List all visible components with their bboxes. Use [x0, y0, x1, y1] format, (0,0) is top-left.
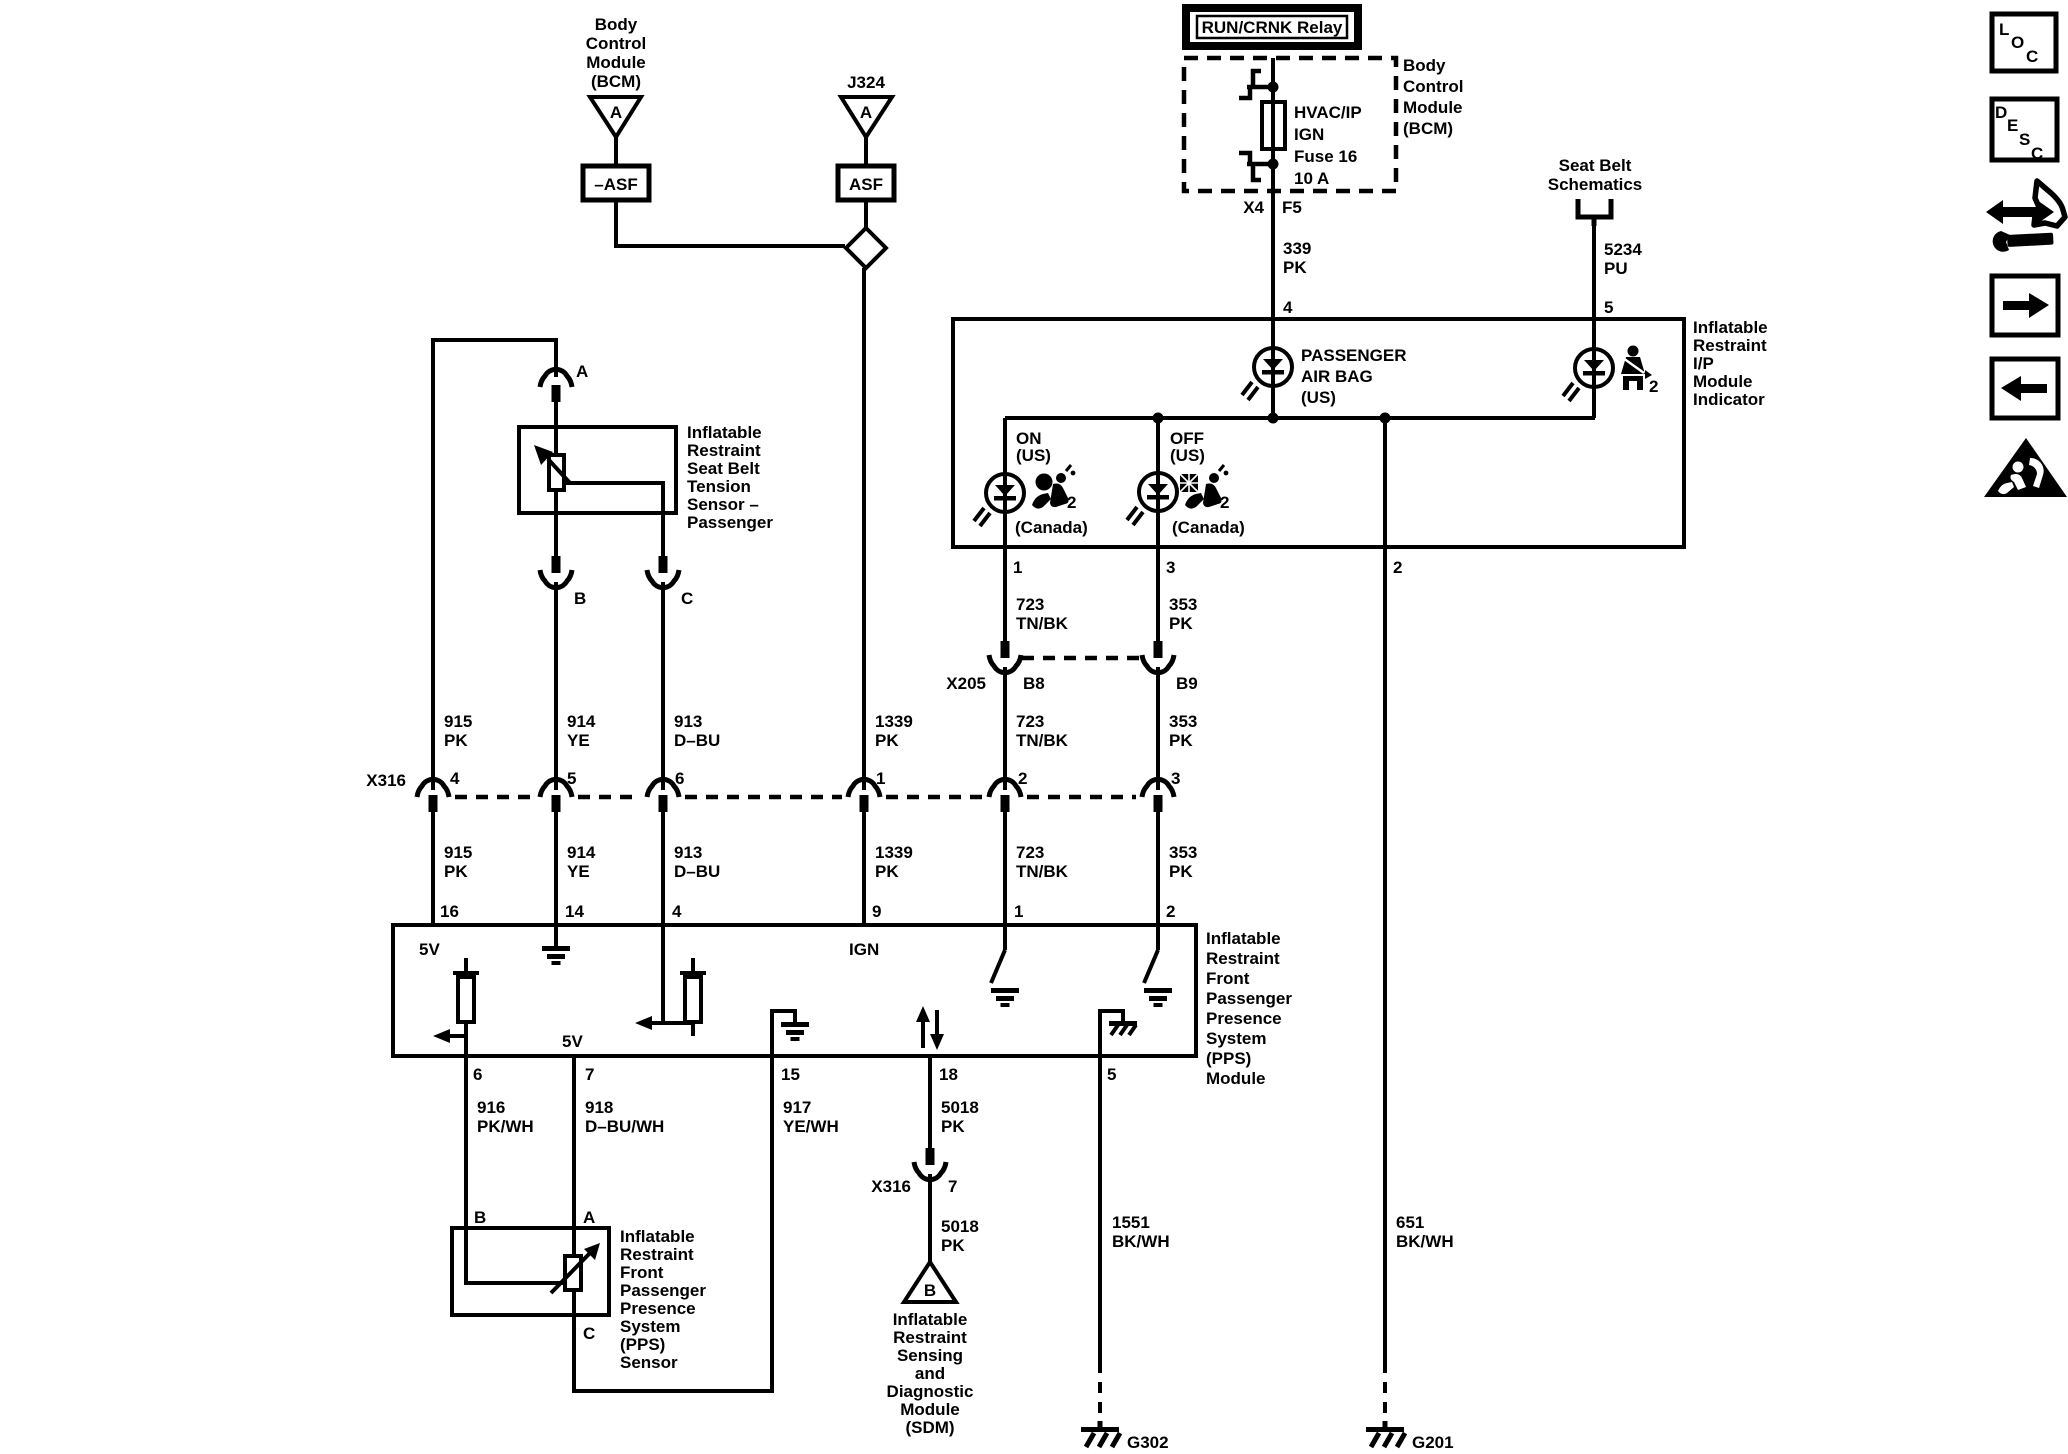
wire 1339 PK lower — [862, 812, 866, 925]
svg-text:Sensing: Sensing — [897, 1346, 963, 1365]
svg-text:(US): (US) — [1016, 446, 1051, 465]
svg-text:TN/BK: TN/BK — [1016, 731, 1069, 750]
svg-text:Restraint: Restraint — [620, 1245, 694, 1264]
wire 723 TN/BK — [1003, 547, 1007, 641]
svg-text:2: 2 — [1649, 377, 1658, 396]
svg-text:F5: F5 — [1282, 198, 1302, 217]
svg-text:B8: B8 — [1023, 674, 1045, 693]
svg-text:(PPS): (PPS) — [1206, 1049, 1251, 1068]
wire 913 D-BU — [661, 582, 665, 790]
svg-text:Seat Belt: Seat Belt — [1559, 156, 1632, 175]
svg-text:B: B — [924, 1281, 936, 1300]
svg-text:PK: PK — [444, 731, 468, 750]
svg-text:Schematics: Schematics — [1548, 175, 1643, 194]
connector B tension sensor — [540, 556, 572, 588]
wire right indicator — [1592, 319, 1596, 418]
wiper wire to C — [565, 483, 663, 556]
data arrows internal pin 18 — [916, 1006, 944, 1050]
svg-text:9: 9 — [872, 902, 881, 921]
sidebar icon DESC — [1992, 99, 2057, 163]
sidebar icon LOC — [1992, 14, 2056, 71]
svg-text:913: 913 — [674, 843, 702, 862]
svg-text:4: 4 — [1283, 298, 1293, 317]
svg-text:1339: 1339 — [875, 843, 913, 862]
svg-text:914: 914 — [567, 843, 596, 862]
svg-text:PK: PK — [941, 1117, 965, 1136]
svg-text:O: O — [2011, 33, 2024, 52]
wire 5234 PU — [1592, 222, 1596, 319]
svg-text:Tension: Tension — [687, 477, 751, 496]
ground internal pin 15 — [772, 1011, 809, 1056]
label 913 D-BU low — [674, 843, 720, 881]
svg-text:Sensor –: Sensor – — [687, 495, 759, 514]
svg-text:B9: B9 — [1176, 674, 1198, 693]
svg-text:915: 915 — [444, 712, 472, 731]
svg-text:Passenger: Passenger — [687, 513, 773, 532]
svg-text:5018: 5018 — [941, 1217, 979, 1236]
svg-text:PK: PK — [444, 862, 468, 881]
svg-text:914: 914 — [567, 712, 596, 731]
fuse clip top — [1239, 71, 1279, 98]
connector X205 cavity B8 — [989, 641, 1021, 673]
svg-text:YE: YE — [567, 862, 590, 881]
connector X205 cavity B9 — [1142, 641, 1174, 673]
fuse block tap -ASF — [583, 166, 649, 200]
junction node — [1380, 413, 1391, 424]
svg-text:Restraint: Restraint — [1693, 336, 1767, 355]
svg-text:B: B — [474, 1208, 486, 1227]
svg-text:5018: 5018 — [941, 1098, 979, 1117]
wire — [864, 200, 868, 229]
wire ON branch — [1003, 418, 1007, 547]
label 353 PK — [1169, 595, 1197, 633]
svg-text:Front: Front — [620, 1263, 664, 1282]
svg-text:(SDM): (SDM) — [905, 1418, 954, 1437]
svg-text:PK: PK — [875, 862, 899, 881]
svg-text:B: B — [574, 589, 586, 608]
svg-text:5V: 5V — [419, 940, 440, 959]
svg-text:Sensor: Sensor — [620, 1353, 678, 1372]
Body Control Module (BCM) dashed box — [1184, 58, 1396, 191]
svg-text:G201: G201 — [1412, 1433, 1454, 1452]
svg-text:System: System — [620, 1317, 680, 1336]
svg-text:TN/BK: TN/BK — [1016, 862, 1069, 881]
RUN/CRNK Relay title box — [1186, 8, 1358, 46]
svg-text:Inflatable: Inflatable — [1206, 929, 1281, 948]
svg-text:L: L — [1999, 20, 2009, 39]
Inflatable Restraint Seat Belt Tension Sensor box — [519, 427, 676, 513]
potentiometer tension sensor — [534, 427, 570, 513]
resistor internal right — [680, 958, 706, 1036]
sidebar icon schematic navigation — [1986, 181, 2065, 252]
svg-text:Restraint: Restraint — [893, 1328, 967, 1347]
svg-text:18: 18 — [939, 1065, 958, 1084]
svg-text:Body: Body — [595, 15, 638, 34]
wire 723 TN/BK lower — [1003, 667, 1007, 790]
fuse HVAC/IP IGN Fuse 16 10 A — [1262, 102, 1285, 149]
fuse clip bottom — [1239, 153, 1279, 180]
wire internal bus — [1005, 416, 1595, 420]
label 1339 PK low — [875, 843, 913, 881]
seat belt buckle icon — [1621, 346, 1652, 391]
svg-text:2: 2 — [1166, 902, 1175, 921]
resistor internal left — [453, 958, 479, 1036]
svg-text:353: 353 — [1169, 712, 1197, 731]
dashed wire to G201 — [1383, 1362, 1387, 1423]
svg-text:Inflatable: Inflatable — [687, 423, 762, 442]
svg-text:Fuse 16: Fuse 16 — [1294, 147, 1357, 166]
svg-text:Module: Module — [1206, 1069, 1266, 1088]
svg-text:BK/WH: BK/WH — [1112, 1232, 1170, 1251]
svg-text:Passenger: Passenger — [620, 1281, 706, 1300]
svg-text:BK/WH: BK/WH — [1396, 1232, 1454, 1251]
label 916 PK/WH — [477, 1098, 534, 1136]
label Body Control Module (BCM) — [586, 15, 646, 91]
junction node — [1268, 413, 1279, 424]
svg-text:C: C — [681, 589, 693, 608]
svg-text:353: 353 — [1169, 595, 1197, 614]
svg-text:915: 915 — [444, 843, 472, 862]
svg-text:353: 353 — [1169, 843, 1197, 862]
svg-text:S: S — [2019, 130, 2030, 149]
label 915 PK low — [444, 843, 472, 881]
svg-text:2: 2 — [1018, 769, 1027, 788]
svg-text:(US): (US) — [1301, 388, 1336, 407]
LED indicator ON (US) — [974, 474, 1024, 526]
svg-text:Module: Module — [1693, 372, 1753, 391]
connector X316 pin 4 — [417, 779, 449, 812]
svg-text:2: 2 — [1220, 493, 1229, 512]
wire — [1271, 319, 1275, 418]
svg-text:ASF: ASF — [849, 175, 883, 194]
wire OFF branch — [1156, 418, 1160, 547]
label 915 PK — [444, 712, 472, 750]
svg-text:PK: PK — [1283, 258, 1307, 277]
label 914 YE low — [567, 843, 596, 881]
svg-text:4: 4 — [450, 769, 460, 788]
svg-text:A: A — [860, 103, 872, 122]
label 1551 BK/WH — [1112, 1213, 1170, 1251]
label PPS Sensor — [620, 1227, 706, 1372]
svg-text:Front: Front — [1206, 969, 1250, 988]
label 918 D-BU/WH — [585, 1098, 664, 1136]
wire 918 D-BU/WH — [572, 1056, 576, 1228]
svg-text:917: 917 — [783, 1098, 811, 1117]
svg-text:4: 4 — [672, 902, 682, 921]
ground internal pin 14 — [542, 925, 570, 965]
off-page connector B to SDM — [904, 1262, 956, 1302]
svg-text:X316: X316 — [871, 1177, 911, 1196]
wire pin 2 branch — [1383, 418, 1387, 547]
connector C tension sensor — [647, 556, 679, 588]
wire 1551 BK/WH — [1098, 1056, 1102, 1362]
wire 914 YE lower — [554, 812, 558, 925]
label Inflatable Restraint Sensing and Diagnostic Module (SDM) — [887, 1310, 974, 1437]
svg-text:PK/WH: PK/WH — [477, 1117, 534, 1136]
label 339 PK — [1283, 239, 1311, 277]
junction node — [1153, 413, 1164, 424]
svg-text:PK: PK — [941, 1236, 965, 1255]
svg-text:PK: PK — [875, 731, 899, 750]
svg-text:Module: Module — [586, 53, 646, 72]
svg-text:PK: PK — [1169, 862, 1193, 881]
svg-text:1: 1 — [1014, 902, 1023, 921]
svg-text:TN/BK: TN/BK — [1016, 614, 1069, 633]
svg-text:723: 723 — [1016, 712, 1044, 731]
svg-text:System: System — [1206, 1029, 1266, 1048]
svg-text:Inflatable: Inflatable — [620, 1227, 695, 1246]
svg-text:14: 14 — [565, 902, 584, 921]
wire 913 D-BU lower — [661, 812, 665, 925]
wire 915 PK seat belt tension sensor loop — [433, 340, 556, 790]
wire 353 PK — [1156, 547, 1160, 641]
label OFF (US) — [1170, 429, 1205, 465]
LED indicator seat belt — [1563, 349, 1613, 401]
svg-text:C: C — [2026, 47, 2038, 66]
wire pin 4 internal — [661, 925, 665, 1023]
ground G201 — [1366, 1421, 1405, 1447]
sidebar icon back arrow — [1992, 359, 2058, 418]
svg-text:G302: G302 — [1127, 1433, 1169, 1452]
LED indicator PASSENGER AIR BAG (US) — [1242, 348, 1292, 400]
svg-text:6: 6 — [473, 1065, 482, 1084]
svg-text:Presence: Presence — [620, 1299, 696, 1318]
ground G302 — [1081, 1421, 1120, 1447]
svg-text:Passenger: Passenger — [1206, 989, 1292, 1008]
label Inflatable Restraint I/P Module Indicator — [1693, 318, 1768, 409]
signal arrow right — [635, 1016, 693, 1030]
svg-text:X4: X4 — [1243, 198, 1264, 217]
svg-text:Diagnostic: Diagnostic — [887, 1382, 974, 1401]
svg-text:J324: J324 — [847, 73, 885, 92]
label 723 TN/BK low — [1016, 843, 1069, 881]
svg-text:Control: Control — [586, 34, 646, 53]
svg-text:Restraint: Restraint — [687, 441, 761, 460]
airbag person icon OFF — [1180, 465, 1228, 509]
svg-text:and: and — [915, 1364, 945, 1383]
switch to ground internal pin 2 — [1144, 925, 1172, 1007]
svg-text:RUN/CRNK Relay: RUN/CRNK Relay — [1202, 18, 1343, 37]
connector X316 pin 6 — [647, 779, 679, 812]
wire through fuse — [1271, 58, 1275, 191]
svg-text:3: 3 — [1171, 769, 1180, 788]
label 353 PK — [1169, 712, 1197, 750]
off-page bracket to seat belt schematics — [1578, 199, 1611, 226]
svg-text:D–BU: D–BU — [674, 731, 720, 750]
svg-text:D: D — [1995, 103, 2007, 122]
svg-text:I/P: I/P — [1693, 354, 1714, 373]
svg-text:15: 15 — [781, 1065, 800, 1084]
svg-text:918: 918 — [585, 1098, 613, 1117]
connector X316 pin 5 — [540, 779, 572, 812]
svg-text:5V: 5V — [562, 1032, 583, 1051]
svg-text:PU: PU — [1604, 259, 1628, 278]
svg-text:339: 339 — [1283, 239, 1311, 258]
switch to ground internal pin 1 — [991, 925, 1019, 1007]
svg-text:723: 723 — [1016, 595, 1044, 614]
connector X316 pin 2 — [989, 779, 1021, 812]
label PPS Module — [1206, 929, 1292, 1088]
connector X316 pin 1 — [848, 779, 880, 812]
airbag person icon ON — [1032, 465, 1075, 509]
svg-text:(BCM): (BCM) — [591, 72, 641, 91]
svg-text:16: 16 — [440, 902, 459, 921]
connector X316 pin 3 — [1142, 779, 1174, 812]
label Seat Belt Schematics — [1548, 156, 1643, 194]
svg-text:2: 2 — [1393, 558, 1402, 577]
svg-text:HVAC/IP: HVAC/IP — [1294, 103, 1362, 122]
chassis ground internal pin 5 — [1100, 1011, 1137, 1056]
svg-text:AIR BAG: AIR BAG — [1301, 367, 1373, 386]
svg-text:651: 651 — [1396, 1213, 1424, 1232]
label 5018 PK low — [941, 1217, 979, 1255]
Inflatable Restraint Front Passenger Presence System (PPS) Module box — [393, 925, 1196, 1056]
svg-text:A: A — [610, 103, 622, 122]
svg-text:Restraint: Restraint — [1206, 949, 1280, 968]
label 914 YE — [567, 712, 596, 750]
svg-text:Body: Body — [1403, 56, 1446, 75]
svg-text:Presence: Presence — [1206, 1009, 1282, 1028]
connector A tension sensor — [540, 369, 572, 402]
label 723 TN/BK — [1016, 595, 1069, 633]
svg-text:E: E — [2007, 116, 2018, 135]
wire — [614, 137, 618, 166]
svg-text:5234: 5234 — [1604, 240, 1642, 259]
fuse block tap ASF — [838, 166, 894, 200]
label HVAC/IP IGN Fuse 16 10 A — [1294, 103, 1362, 188]
wire 916 PK/WH — [464, 1056, 468, 1228]
wire to B — [554, 513, 558, 556]
sidebar icon airbag warning — [1984, 438, 2067, 497]
svg-text:913: 913 — [674, 712, 702, 731]
svg-text:A: A — [576, 362, 588, 381]
label 5234 PU — [1604, 240, 1642, 278]
sidebar icon forward arrow — [1992, 276, 2058, 335]
off-page connector A to BCM — [590, 97, 641, 137]
dashed connector line X316 — [455, 795, 1136, 800]
svg-text:1339: 1339 — [875, 712, 913, 731]
wire 1339 PK from splice to X316 pin 1 — [862, 268, 866, 790]
svg-text:(Canada): (Canada) — [1172, 518, 1245, 537]
wire — [616, 200, 845, 246]
wire 915 PK lower — [431, 812, 435, 925]
svg-text:10 A: 10 A — [1294, 169, 1329, 188]
svg-text:A: A — [583, 1208, 595, 1227]
label 353 PK low — [1169, 843, 1197, 881]
wire 914 YE — [554, 582, 558, 790]
svg-text:2: 2 — [1067, 493, 1076, 512]
svg-text:C: C — [2031, 144, 2043, 163]
svg-text:7: 7 — [948, 1177, 957, 1196]
wire — [554, 401, 558, 427]
svg-text:Module: Module — [1403, 98, 1463, 117]
svg-text:D–BU: D–BU — [674, 862, 720, 881]
wire 5018 PK — [928, 1056, 932, 1151]
svg-text:IGN: IGN — [849, 940, 879, 959]
label Body Control Module (BCM) — [1403, 56, 1463, 138]
dashed connector line X205 — [1022, 656, 1141, 661]
wire 353 PK lower — [1156, 667, 1160, 790]
Inflatable Restraint I/P Module Indicator box — [953, 319, 1684, 547]
label 723 TN/BK — [1016, 712, 1069, 750]
svg-text:PASSENGER: PASSENGER — [1301, 346, 1407, 365]
svg-text:5: 5 — [1604, 298, 1613, 317]
signal arrow left — [433, 1029, 466, 1056]
splice diamond — [846, 228, 886, 268]
label PASSENGER AIR BAG (US) — [1301, 346, 1407, 407]
svg-text:1: 1 — [1013, 558, 1022, 577]
svg-text:(BCM): (BCM) — [1403, 119, 1453, 138]
connector X316 cavity 7 — [914, 1148, 946, 1180]
label 5018 PK — [941, 1098, 979, 1136]
wire 353 PK lower2 — [1156, 812, 1160, 925]
LED indicator OFF (US) — [1127, 473, 1177, 525]
svg-text:YE: YE — [567, 731, 590, 750]
svg-text:Seat Belt: Seat Belt — [687, 459, 760, 478]
label 1339 PK — [875, 712, 913, 750]
svg-text:(US): (US) — [1170, 446, 1205, 465]
wire 917 YE/WH — [770, 1056, 774, 1393]
svg-text:Inflatable: Inflatable — [893, 1310, 968, 1329]
label Inflatable Restraint Seat Belt Tension Sensor - Passenger — [687, 423, 773, 532]
svg-text:1551: 1551 — [1112, 1213, 1150, 1232]
wire 339 PK — [1271, 191, 1275, 319]
svg-text:IGN: IGN — [1294, 125, 1324, 144]
svg-text:–ASF: –ASF — [594, 175, 637, 194]
wire 651 BK/WH — [1383, 547, 1387, 1362]
Inflatable Restraint Front Passenger Presence System (PPS) Sensor box — [452, 1228, 609, 1315]
wire 5018 PK lower — [928, 1174, 932, 1266]
label ON (US) — [1016, 429, 1051, 465]
potentiometer PPS sensor — [466, 1228, 600, 1315]
svg-text:Inflatable: Inflatable — [1693, 318, 1768, 337]
svg-text:(Canada): (Canada) — [1015, 518, 1088, 537]
svg-text:3: 3 — [1166, 558, 1175, 577]
svg-text:X316: X316 — [366, 771, 406, 790]
svg-text:C: C — [583, 1324, 595, 1343]
svg-text:(PPS): (PPS) — [620, 1335, 665, 1354]
svg-text:PK: PK — [1169, 614, 1193, 633]
svg-text:D–BU/WH: D–BU/WH — [585, 1117, 664, 1136]
label 651 BK/WH — [1396, 1213, 1454, 1251]
svg-text:7: 7 — [585, 1065, 594, 1084]
dashed wire to G302 — [1098, 1362, 1102, 1423]
svg-text:Indicator: Indicator — [1693, 390, 1765, 409]
wire — [864, 137, 868, 166]
label 917 YE/WH — [783, 1098, 839, 1136]
wire sensor C to module — [574, 1315, 772, 1391]
svg-text:PK: PK — [1169, 731, 1193, 750]
label 913 D-BU — [674, 712, 720, 750]
svg-text:916: 916 — [477, 1098, 505, 1117]
svg-text:YE/WH: YE/WH — [783, 1117, 839, 1136]
svg-text:5: 5 — [1107, 1065, 1116, 1084]
wire 723 TN/BK lower2 — [1003, 812, 1007, 925]
svg-text:X205: X205 — [946, 674, 986, 693]
svg-text:723: 723 — [1016, 843, 1044, 862]
svg-text:Module: Module — [900, 1400, 960, 1419]
svg-text:Control: Control — [1403, 77, 1463, 96]
off-page connector A to J324 — [841, 97, 892, 137]
